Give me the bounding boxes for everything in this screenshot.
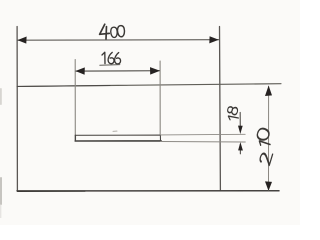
- dimension line 166: [75, 70, 159, 72]
- label 166: [102, 52, 121, 64]
- scanner smudge left edge lower: [0, 177, 2, 205]
- scanner smudge left edge upper: [0, 88, 2, 105]
- dimension line 210: [268, 86, 270, 190]
- dimension line 400: [18, 39, 219, 42]
- wire: plate top edge left overdraw: [17, 86, 110, 87]
- wire: slot right edge + 166 extension line: [159, 61, 161, 135]
- slot bar left end cap: [74, 135, 76, 141]
- wire: plate top edge + 210 extension: [17, 84, 281, 87]
- dimension line 18 upper tail: [239, 113, 241, 127]
- wire: plate left edge + 400 extension line: [16, 27, 18, 191]
- arrowhead 400 right: [209, 36, 219, 43]
- arrowhead 166 right: [150, 67, 160, 75]
- slot bottom bar right end cap: [159, 135, 161, 141]
- wire: slot left edge + 166 extension line: [74, 60, 76, 141]
- arrowhead 400 left: [17, 37, 26, 44]
- arrowhead 18 down: [238, 126, 243, 134]
- arrowhead 18 up: [238, 142, 243, 150]
- dimension line 18 lower tail: [239, 145, 241, 154]
- stray pencil tick above bar: [113, 130, 117, 132]
- slot bottom bar bottom line: [75, 140, 161, 142]
- wire: plate bottom edge + 210 extension: [17, 190, 279, 192]
- arrowhead 210 down: [265, 181, 272, 191]
- extension line 18 top: [160, 133, 245, 136]
- label 18 (rotated): [227, 106, 239, 122]
- scanner smudge bottom-left streak: [0, 205, 1, 218]
- label 400: [99, 24, 124, 39]
- arrowhead 166 left: [75, 67, 84, 74]
- arrowhead 210 up: [265, 86, 272, 97]
- label 210 (rotated): [256, 127, 274, 166]
- wire: plate right edge + 400 extension line: [219, 27, 222, 191]
- wire: plate bottom edge left overdraw: [18, 190, 86, 192]
- slot bottom bar top line: [75, 134, 160, 136]
- label 166 underline: [100, 64, 120, 67]
- extension line 18 bottom: [160, 141, 245, 144]
